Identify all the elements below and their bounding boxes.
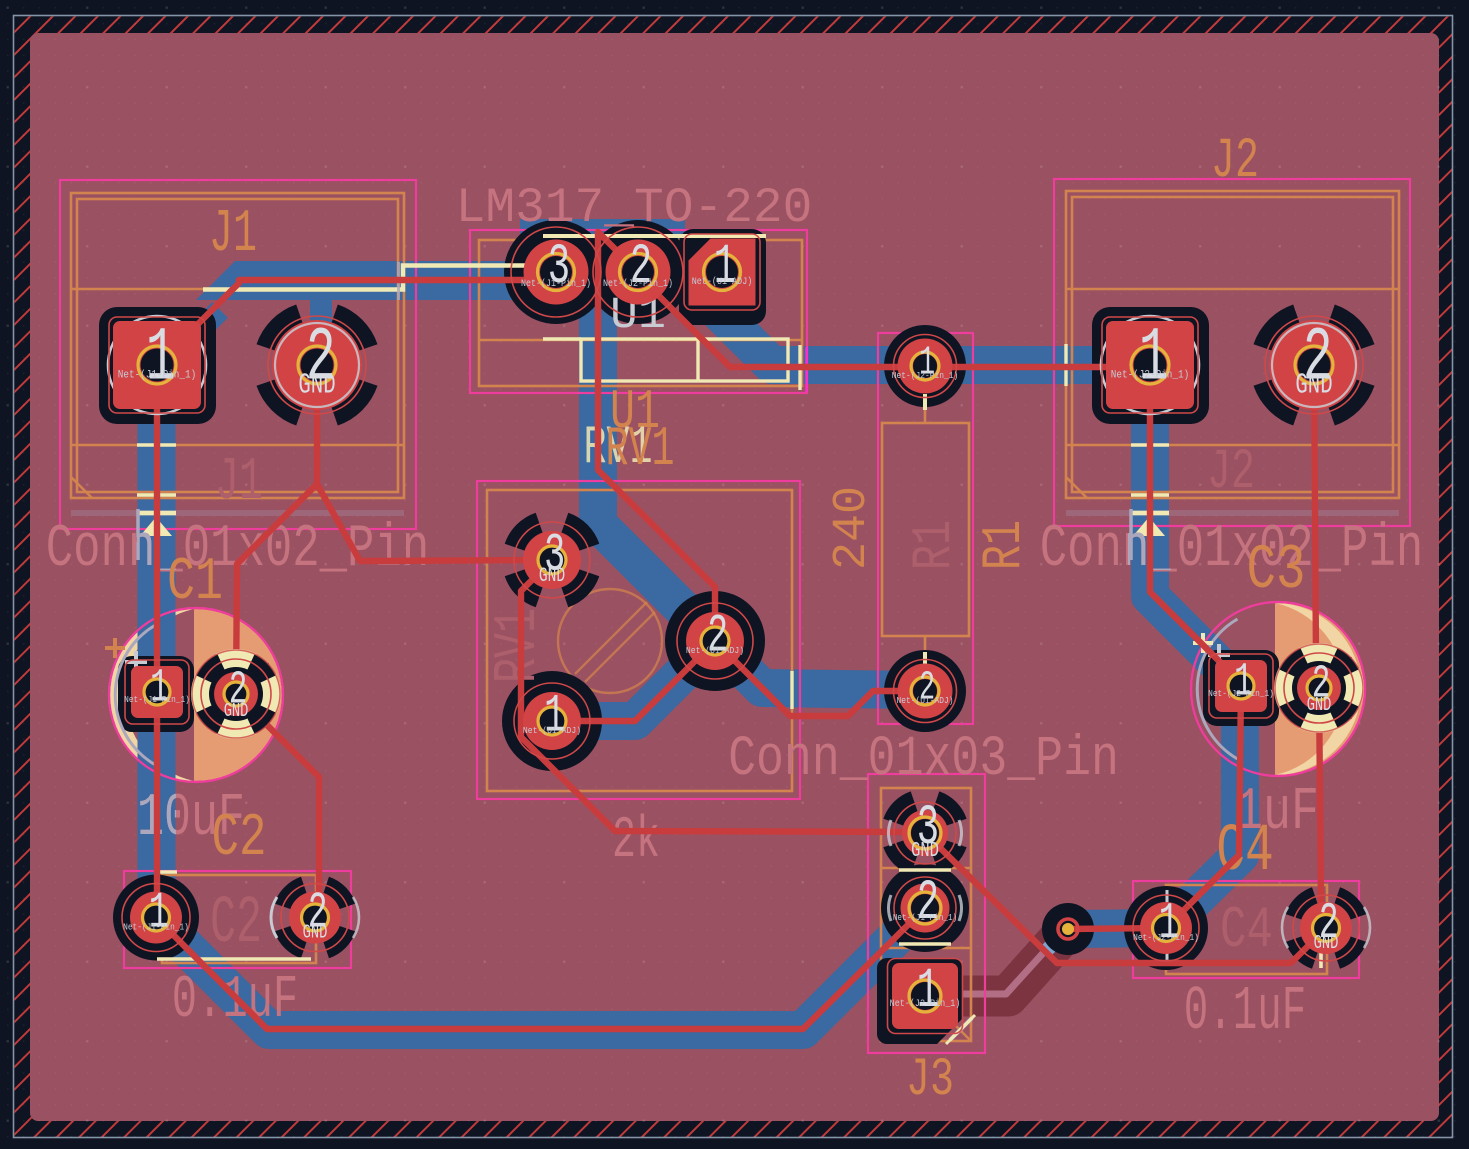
label C4 fab reference [1220, 897, 1273, 964]
wire F.Cu C3.1 to C4.1 [1166, 686, 1241, 928]
pad C2.1 [122, 884, 190, 952]
svg-text:Net-(U1-ADJ): Net-(U1-ADJ) [523, 725, 581, 736]
wire F.Cu J2.2 to C3.2 to C4.2 GND [1314, 365, 1326, 925]
capacitor C4 fab outline [1166, 885, 1327, 974]
regulator U1 fab outline [479, 240, 802, 386]
label RV1 fab reference vertical [484, 608, 553, 683]
svg-text:3: 3 [548, 236, 570, 300]
wire F.Cu C1.2 to C2.2 GND [236, 694, 319, 918]
pad R1.2 [894, 660, 957, 723]
svg-text:GND: GND [224, 700, 249, 722]
wire F.Cu C2.1 to J3.2 VIN [156, 908, 925, 1029]
pad U1.3 [511, 227, 601, 317]
wire F.Cu J2.1 to C3.1 [1150, 365, 1241, 684]
label RV1 value 2k [612, 808, 660, 875]
label U1 silk reference [610, 290, 666, 341]
svg-text:J3: J3 [906, 1051, 954, 1111]
pad RV1.2 [677, 603, 753, 679]
pad C4.1 [1133, 894, 1199, 961]
silkscreen J3 pad arcs [889, 820, 962, 921]
silkscreen C3 polarity [1193, 619, 1238, 759]
silkscreen C1 polarity [105, 625, 156, 765]
silkscreen U1 outline [543, 236, 807, 392]
wire B.Cu J1.1 to U1.3 (VIN bus) [158, 219, 685, 372]
pad U1.1 [684, 234, 760, 310]
svg-text:Net-(J2-Pin_1): Net-(J2-Pin_1) [1133, 932, 1199, 943]
svg-text:1: 1 [146, 317, 176, 402]
capacitor C2 courtyard [124, 871, 351, 968]
pad RV1.1 [514, 683, 590, 759]
wire B.Cu J2.1 to C3.1 [1150, 365, 1240, 686]
svg-text:C2: C2 [212, 806, 267, 873]
svg-text:C2: C2 [210, 885, 262, 961]
svg-text:GND: GND [539, 565, 565, 588]
pad C4.2 GND [1282, 894, 1370, 961]
label J1 reference [209, 202, 257, 269]
wire B.Cu U1 to RV1.2 [598, 290, 715, 641]
svg-text:2: 2 [707, 606, 728, 668]
svg-text:J2: J2 [1207, 440, 1255, 505]
label R1 fab reference vertical [903, 520, 966, 570]
svg-text:C4: C4 [1220, 897, 1273, 964]
wire F.Cu U1.2 up-over to RV1.2 [598, 232, 715, 641]
silkscreen J1 pin1 arrow [71, 509, 404, 560]
pad J3.3 GND [894, 797, 956, 864]
potentiometer RV1 courtyard [477, 481, 800, 799]
pad C1.2 GND [191, 649, 281, 739]
wire B.Cu C2.1 to J3.2 (VIN) [156, 908, 925, 1030]
label J3 reference [906, 1051, 954, 1111]
pad J3.1 [888, 959, 963, 1034]
connector J1 courtyard [60, 180, 416, 529]
capacitor C3 body fill [1189, 603, 1364, 775]
svg-text:Net-(J1-Pin_1): Net-(J1-Pin_1) [118, 369, 196, 382]
svg-text:2k: 2k [612, 808, 660, 875]
svg-text:0.1uF: 0.1uF [1184, 976, 1306, 1047]
connector J1 fab outline [71, 193, 404, 498]
label J2 fab reference [1207, 440, 1255, 505]
wire F.Cu RV1.1 to RV1.2 [552, 641, 715, 721]
svg-text:1: 1 [1159, 894, 1179, 952]
label J1 fab reference [215, 450, 263, 517]
svg-text:Net-(U1-ADJ): Net-(U1-ADJ) [692, 275, 753, 287]
svg-text:1: 1 [917, 960, 939, 1024]
pad J3.2 [893, 872, 957, 939]
wire B.Cu J1.1 down to C1.1 and C2.1 [138, 352, 176, 917]
svg-text:Net-(U1-ADJ): Net-(U1-ADJ) [686, 645, 744, 656]
label C1 reference [167, 549, 223, 617]
svg-text:GND: GND [911, 837, 939, 862]
wire F.Cu J1.2 GND split [236, 365, 552, 694]
silkscreen J1 fab edge over trace [397, 262, 400, 300]
label C3 value 1uF [1235, 779, 1319, 847]
capacitor C3 courtyard circle overlay [1191, 602, 1365, 776]
silkscreen J1 line over trace [137, 443, 176, 446]
svg-text:Net-(J2-Pin_1): Net-(J2-Pin_1) [1208, 688, 1274, 699]
silkscreen RV1 fab edge over trace [790, 671, 793, 709]
capacitor C2 fab outline [162, 875, 316, 963]
silkscreen J2 pin1 arrow [1066, 509, 1399, 560]
wire F.Cu U1.2 to R1.1 to J2.1 VOUT [638, 275, 1150, 367]
label J2 reference [1211, 129, 1259, 194]
wire In1.Cu J1.1 to U1.3 [203, 266, 545, 290]
pad C3.1 [1208, 654, 1274, 718]
silkscreen J1 fab bottom over trace [137, 493, 176, 496]
label R1 reference vertical [973, 520, 1036, 570]
connector J2 courtyard [1054, 179, 1410, 526]
svg-text:2: 2 [630, 236, 652, 300]
wire B.Cu stub to J1.2 [310, 298, 332, 330]
pad J2.2 GND [1265, 316, 1363, 414]
label U1 value LM317_TO-220 [456, 180, 813, 236]
wire F.Cu J1.1 to U1.3 [157, 280, 553, 365]
svg-text:R1: R1 [903, 520, 966, 570]
svg-text:2: 2 [917, 872, 939, 936]
label C3 reference [1247, 536, 1306, 607]
svg-text:Net-(J2-Pin_1): Net-(J2-Pin_1) [890, 997, 961, 1009]
pad U1.2 [593, 227, 683, 317]
silkscreen J2 line over trace [1131, 443, 1169, 446]
pad J2.1 [1101, 316, 1199, 414]
label C2 reference [212, 806, 267, 873]
svg-text:Conn_01x02_Pin: Conn_01x02_Pin [1040, 517, 1423, 585]
svg-text:Net-(J1-Pin_1): Net-(J1-Pin_1) [123, 922, 189, 933]
silkscreen J2 fab bottom over trace [1131, 493, 1169, 496]
capacitor C1 body fill [108, 609, 282, 781]
svg-text:GND: GND [1314, 933, 1339, 955]
capacitor C3 courtyard circle [1191, 602, 1365, 776]
label C4 reference [1216, 815, 1273, 890]
label R1 value 240 vertical [826, 486, 879, 570]
pad clearance dark zones [99, 220, 1375, 1044]
pad C3.2 GND [1274, 643, 1364, 733]
svg-text:1: 1 [150, 663, 169, 716]
label J3 value Conn_01x03_Pin [728, 727, 1119, 792]
svg-text:GND: GND [303, 923, 328, 945]
svg-text:Net-(J2-Pin_1): Net-(J2-Pin_1) [1111, 369, 1189, 382]
capacitor C1 courtyard circle overlay [109, 608, 283, 782]
wire B.Cu C3.1 to C4.1 [1166, 686, 1240, 928]
capacitor C1 courtyard circle [109, 608, 283, 782]
resistor R1 courtyard [878, 333, 973, 724]
svg-text:J1: J1 [215, 450, 263, 517]
connector J3 courtyard [868, 774, 985, 1053]
pad R1.1 [892, 335, 959, 398]
wire F.Cu RV1.3 to J3.3 GND [521, 560, 925, 832]
svg-text:Net-(U1-ADJ): Net-(U1-ADJ) [896, 695, 953, 706]
svg-text:1: 1 [544, 686, 565, 748]
silkscreen J2 fab edge over trace [1064, 344, 1067, 386]
pad C2.2 GND [271, 884, 359, 952]
svg-text:Net-(J1-Pin_1): Net-(J1-Pin_1) [893, 912, 957, 923]
svg-text:Conn_01x03_Pin: Conn_01x03_Pin [728, 727, 1119, 792]
wire F.Cu via to C4.1 [1068, 928, 1166, 929]
regulator U1 courtyard [470, 230, 807, 393]
wire B.Cu U1.1 to J2.1 (VOUT bus) [688, 281, 1150, 365]
svg-text:C3: C3 [1247, 536, 1306, 607]
silkscreen C2 outline [157, 872, 311, 959]
wire F.Cu RV1.2 to R1.2 [715, 641, 925, 716]
svg-text:1: 1 [1234, 657, 1253, 710]
label RV1 reference [583, 418, 674, 481]
capacitor C4 courtyard [1133, 881, 1359, 978]
pad J1.1 [108, 316, 206, 414]
wire F.Cu J3.3 to C4.2 GND [925, 833, 1326, 963]
label J1 value Conn_01x02_Pin [46, 517, 429, 585]
label J2 value Conn_01x02_Pin [1040, 517, 1423, 585]
svg-text:GND: GND [1295, 368, 1332, 401]
svg-text:C1: C1 [167, 549, 223, 617]
svg-text:Net-(J1-Pin_1): Net-(J1-Pin_1) [124, 694, 190, 705]
wire F.Cu J1.1 to C1.1 to C2.1 [154, 365, 160, 917]
svg-text:Net-(J1-Pin_1): Net-(J1-Pin_1) [521, 277, 591, 289]
svg-text:Net-(J2-Pin_1): Net-(J2-Pin_1) [603, 277, 673, 289]
svg-text:1: 1 [1139, 317, 1169, 402]
label C1 value 10uF [137, 784, 245, 852]
silkscreen R1 terminal lines [923, 394, 927, 667]
svg-text:RV1: RV1 [605, 419, 674, 482]
pad J1.2 GND [268, 316, 366, 414]
svg-text:1: 1 [714, 236, 736, 300]
svg-text:Net-(J2-Pin_1): Net-(J2-Pin_1) [892, 370, 959, 381]
svg-text:GND: GND [1307, 694, 1332, 716]
silkscreen C4 outline [1167, 890, 1321, 968]
resistor R1 fab outline [882, 408, 969, 653]
label U1 fab reference [610, 381, 660, 444]
connector J3 fab outline [881, 788, 971, 1041]
label C2 fab reference [210, 885, 262, 961]
svg-text:240: 240 [826, 486, 879, 570]
pad C1.1 [124, 660, 190, 724]
silkscreen J3 lines [899, 870, 975, 1044]
via VOUT net [1058, 919, 1078, 939]
potentiometer RV1 fab outline [487, 490, 792, 791]
svg-text:J1: J1 [209, 202, 257, 269]
svg-text:J2: J2 [1211, 129, 1259, 194]
wire B.Cu RV1.2 to RV1.1 [552, 641, 715, 721]
svg-text:R1: R1 [973, 520, 1036, 570]
pad RV1.3 GND [514, 522, 590, 598]
wire B.Cu via to C4.1 [1068, 928, 1166, 929]
svg-text:C4: C4 [1216, 815, 1273, 890]
svg-text:1: 1 [149, 884, 169, 942]
wire B.Cu RV1.2 to R1.2 [715, 641, 925, 690]
svg-text:GND: GND [298, 368, 335, 401]
connector J2 fab outline [1066, 191, 1399, 498]
wire In2.Cu J3.1 to via (under pour) [930, 929, 1068, 996]
label C4 value 0.1uF [1184, 976, 1306, 1047]
label C2 value 0.1uF [172, 966, 298, 1034]
